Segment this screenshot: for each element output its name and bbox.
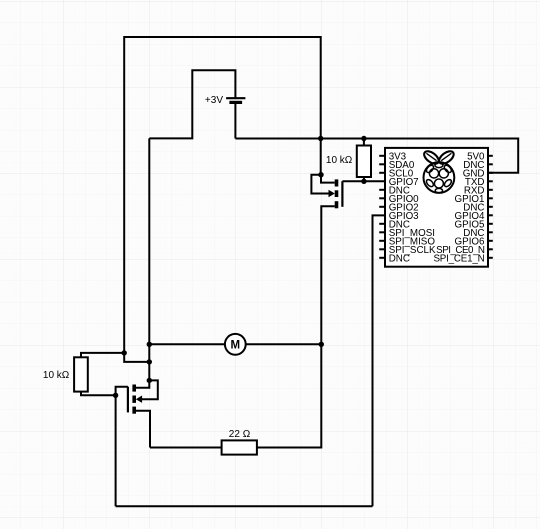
junction Q2 drain-body node (147, 378, 152, 383)
pin stub left DNC (379, 189, 385, 191)
pin stub left SPI_SCLK (379, 248, 385, 250)
wire: Q1 gate to R1 bottom node and Pi GPIO7 (342, 180, 385, 182)
wire: battery positive loop (top of battery around to left) (149, 70, 235, 138)
pin stub right 5V0 (488, 155, 493, 157)
wire: node A down to Q1 drain node (320, 139, 322, 175)
pin stub right RXD (488, 189, 493, 191)
transistor Q1 n-channel MOSFET (high side) (337, 179, 343, 208)
wire: bottom rail y=506 (116, 505, 373, 507)
pin stub left SPI_MOSI (379, 231, 385, 233)
IC U1 Raspberry Pi chip body (385, 148, 488, 267)
wire: battery negative rail y=138.5 over to Raspberry Pi GND pin (235, 139, 518, 173)
battery V1 +3V (226, 98, 245, 102)
junction motor rail right (319, 342, 324, 347)
wire: Q2 gate lead and drop to bottom rail (116, 387, 128, 507)
wire: Q2 body tie jog with arrow (136, 380, 158, 403)
pin stub left GPIO2 (379, 206, 385, 208)
wire: Q2 source lead down to 22 ohm row (136, 411, 150, 448)
pin stub right DNC (488, 231, 493, 233)
pin stub left 3V3 (379, 155, 385, 157)
pin stub right DNC (488, 163, 493, 165)
wire: left rail jog joining positive feed (124, 353, 149, 362)
wire: Q1 body tie jog with arrow (311, 175, 334, 198)
resistor R1 10 kOhm (gate pull-up, top right) (357, 146, 371, 178)
junction Q1 drain-body node (318, 172, 323, 177)
wire: GPIO3 drop from Pi down to bottom rail (373, 215, 386, 506)
resistor R2 10 kOhm (left) (74, 357, 88, 391)
wire: left rail to R2 top (81, 353, 124, 357)
pin stub right GND (488, 172, 493, 174)
svg-text:+3V: +3V (205, 95, 223, 106)
Raspberry Pi logo on U1 (422, 149, 456, 193)
junction R1 top at rail (361, 136, 366, 141)
svg-text:10 kΩ: 10 kΩ (43, 370, 70, 381)
svg-text:DNC: DNC (389, 253, 410, 264)
wire: positive vertical feed x=149 down to Q2 drain node (148, 138, 150, 380)
pin stub right GPIO5 (488, 223, 493, 225)
pin stub right SPI_CE1_N (488, 257, 493, 259)
pin stub left GPIO0 (379, 197, 385, 199)
junction R1 bottom / Q1 gate / GPIO7 (361, 179, 366, 184)
junction motor rail left (147, 342, 152, 347)
wire: R2 bottom to Q2 gate drop (81, 392, 116, 396)
svg-text:M: M (231, 339, 241, 351)
svg-text:22 Ω: 22 Ω (229, 429, 251, 440)
wire: R1 bottom lead to gate node (363, 177, 365, 181)
svg-text:SPI_CE1_N: SPI_CE1_N (433, 253, 484, 264)
wire: motor rail y=344.3 (149, 343, 321, 345)
junction R2 bottom / Q2 gate drop (113, 393, 118, 398)
motor M1 (225, 334, 246, 355)
pin stub left SCL0 (379, 172, 385, 174)
pin stub right TXD (488, 180, 493, 182)
wire: left rail up and across top to node A (124, 37, 321, 353)
wire: Q1 drain lead (321, 175, 335, 183)
junction left rail / R2 top (122, 350, 127, 355)
pin stub right GPIO1 (488, 197, 493, 199)
pin stub left DNC (379, 223, 385, 225)
wire: 22 ohm row left segment (150, 447, 222, 449)
pin stub left DNC (379, 257, 385, 259)
transistor Q2 n-channel MOSFET (low side, mirrored) (128, 385, 134, 414)
pin stub left SPI_MISO (379, 240, 385, 242)
svg-text:10 kΩ: 10 kΩ (326, 155, 353, 166)
pin stub left SDA0 (379, 163, 385, 165)
junction positive feed / left rail jog (147, 359, 152, 364)
node A junction (top rail x=320) (318, 136, 323, 141)
wire: R1 top lead from rail (363, 139, 365, 146)
resistor R3 22 Ohm (bottom) (222, 440, 257, 454)
wire: battery negative lead down to rail (234, 104, 236, 139)
wire: 22 ohm row right segment up through motor rail to Q1 source (257, 206, 335, 447)
pin stub right GPIO4 (488, 214, 493, 216)
pin stub right SPI_CE0_N (488, 248, 493, 250)
wire: Q2 drain lead (136, 380, 149, 387)
pin stub right DNC (488, 206, 493, 208)
pin stub right GPIO6 (488, 240, 493, 242)
